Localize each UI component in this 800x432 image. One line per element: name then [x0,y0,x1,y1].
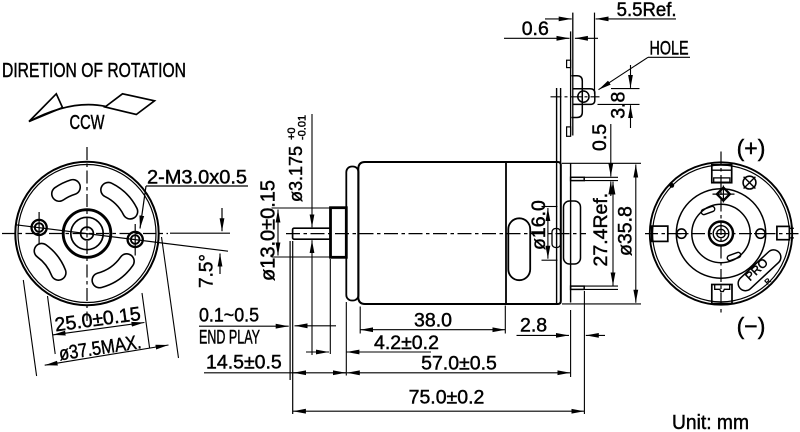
end play double line [289,241,291,380]
CCW curved arrow: arc [29,105,106,122]
svg-text:7.5°: 7.5° [197,254,218,288]
endcap face outer line [560,88,562,164]
HOLE leader arrow [599,57,649,89]
dia 13 extension bottom [272,256,331,258]
terminal tip extension [583,291,585,414]
front boss circle thick [63,210,111,258]
end play leader with right arrow [199,325,289,327]
right mounting hole [128,224,143,256]
crimp tab lower [567,127,571,136]
dia 13 extension top [272,207,331,209]
can bottom extension line [562,303,641,305]
rear vertical centerline [720,152,722,317]
rear crossed screw hole [743,176,756,189]
dim 25.0 extension right [142,293,150,348]
svg-text:2-M3.0x0.5: 2-M3.0x0.5 [147,167,247,189]
svg-text:14.5±0.5: 14.5±0.5 [206,352,282,374]
dim 0.5 upper arrow [610,124,612,177]
14.5 right arrowhead [338,372,346,374]
svg-text:ø13.0±0.15: ø13.0±0.15 [258,180,280,281]
svg-text:DIRETION OF ROTATION: DIRETION OF ROTATION [2,60,186,82]
7.5deg arrow lower [219,254,221,275]
svg-text:(−): (−) [737,313,766,339]
shaft boss thick rect [331,208,347,258]
rear shaft end circle [717,229,725,237]
leader arrow to right hole [140,186,146,229]
dim 2.8 underline arrow [517,334,570,336]
endcap rear boss rounded rect [564,201,581,264]
dia 16 dim line [547,208,549,259]
dim 4.2 line with left tip [346,351,431,353]
svg-text:(+): (+) [737,135,766,161]
rear screw right [756,229,765,238]
end play opposing arrow [295,325,337,327]
svg-text:27.4Ref.: 27.4Ref. [590,193,612,267]
rear rotor circle [692,204,750,262]
dim 37.5 extension right [162,237,179,358]
dim 3.8 extension top [611,88,640,90]
svg-text:2.8: 2.8 [520,315,547,337]
svg-text:5.5Ref.: 5.5Ref. [617,0,677,21]
rear bottom terminal tab [712,285,732,304]
front mid circle [71,217,103,249]
terminal plane extension [570,310,572,377]
front shaft circle [81,227,94,240]
terminal plane line A [572,13,574,136]
terminal sheet line [570,31,572,135]
rear PRO stamp stadium [735,247,784,294]
terminal tab with hole [573,89,595,105]
svg-text:57.0±0.5: 57.0±0.5 [421,353,497,375]
7.5deg reference horizontal line [170,232,230,234]
dim 3.8 upper arrow [630,65,632,88]
svg-text:HOLE: HOLE [650,38,689,60]
dia 16 extension top [542,206,558,208]
rear slot lower right [727,252,742,262]
side view centerline [286,233,586,235]
HOLE underline [648,56,690,58]
dim line 37.5 [45,345,169,365]
front vertical centerline [86,147,88,321]
endcap face line [556,88,558,304]
flange extension line [345,302,347,376]
front outer circle (double) [15,162,158,305]
rear outer circle double [650,162,792,304]
top terminal tab [571,177,585,180]
dim line 57.0 [347,372,571,374]
terminal hole circle [578,91,589,102]
terminal bracket boss [572,76,583,118]
dim 0.5 lower arrow [610,181,612,196]
7.5deg arrow upper [221,208,223,231]
svg-text:ø16.0: ø16.0 [528,200,550,250]
dim 37.5 extension left [23,280,36,376]
dia 3.175 dim upper line [311,114,313,227]
bottom terminal extension lines [584,285,618,287]
vent hole oval on endcap [508,218,530,280]
svg-text:0.6: 0.6 [522,18,549,40]
38 left extension [359,307,361,334]
svg-text:38.0: 38.0 [414,310,452,332]
can/endcap junction line [505,163,507,304]
front vent slot SW [42,251,59,273]
dim 2.8 opposing arrow [586,334,605,336]
leader underline for 2-M3.0x0.5 [146,185,248,187]
rear center circle mid [713,226,729,242]
dim line 75.0 [293,410,584,412]
CCW flag parallelogram [105,94,155,115]
dim line 25.0 [53,323,145,335]
svg-text:END PLAY: END PLAY [199,328,260,349]
bearing bump on endcap [552,229,561,248]
brush card plane line [570,164,572,303]
rear center boss circle [709,222,733,246]
dia 13 dim line [277,210,279,256]
dim 5.5Ref left arrow [545,18,572,20]
dim 5.5Ref right line [596,18,676,20]
svg-text:-0.01: -0.01 [297,115,309,140]
crimp tab upper [567,60,571,67]
shaft tip extension line [292,241,294,414]
dim 25.0 extension left [48,296,56,354]
svg-text:75.0±0.2: 75.0±0.2 [409,387,485,409]
front vent slot SE [100,261,127,280]
front horizontal centerline [2,233,168,235]
svg-text:ø35.8: ø35.8 [615,206,637,256]
CCW arrowhead triangle [29,94,63,122]
dia 16 extension bottom [542,259,558,261]
38 right extension [504,306,506,334]
front vent slot NE [108,190,130,212]
svg-text:0.1~0.5: 0.1~0.5 [199,306,259,327]
rear small dot on flange [669,183,674,188]
dim 27.4Ref line [612,182,614,286]
dim 0.6 right arrow [575,37,598,39]
terminal tip line B [594,13,596,94]
14.5 left arrowhead [293,372,301,374]
svg-text:4.2±0.2: 4.2±0.2 [374,332,439,354]
left mounting hole [31,212,46,244]
rear right side tab [777,226,794,239]
rear slot upper left [701,206,716,216]
detail centerline [551,96,600,98]
rear top terminal tab [712,165,732,183]
dim 0.6 left arrow [504,37,570,39]
rear left side tab [652,226,668,241]
rear screw left [677,229,686,238]
boss left extension line [329,259,331,354]
svg-text:ø3.175: ø3.175 [286,146,306,202]
motor can body [358,162,561,304]
rear horizontal centerline [645,233,799,235]
svg-text:Unit: mm: Unit: mm [672,412,749,432]
mounting hole axis line (7.5 deg) [16,225,228,251]
dim line 14.5 row [204,372,346,374]
dia 3.175 dim lower line [311,240,313,355]
rear ring circle [676,189,765,278]
dim 3.8 lower arrow [630,105,632,128]
dim 4.2 left arrow [306,351,329,353]
top terminal extension lines [584,176,618,178]
bottom terminal tab [571,286,585,289]
svg-text:3.8: 3.8 [608,92,630,119]
dim line 38.0 [360,329,505,331]
svg-text:CCW: CCW [70,112,105,134]
svg-text:0.5: 0.5 [589,124,611,151]
rear anti-rotation diamond [713,186,735,203]
front vent slot NW [59,187,73,194]
dim 35.8 line [635,165,637,303]
can top extension line [562,162,641,164]
shaft [293,228,331,239]
dim 3.8 extension bottom [598,103,640,105]
front plate lip rounded rect [346,167,358,301]
